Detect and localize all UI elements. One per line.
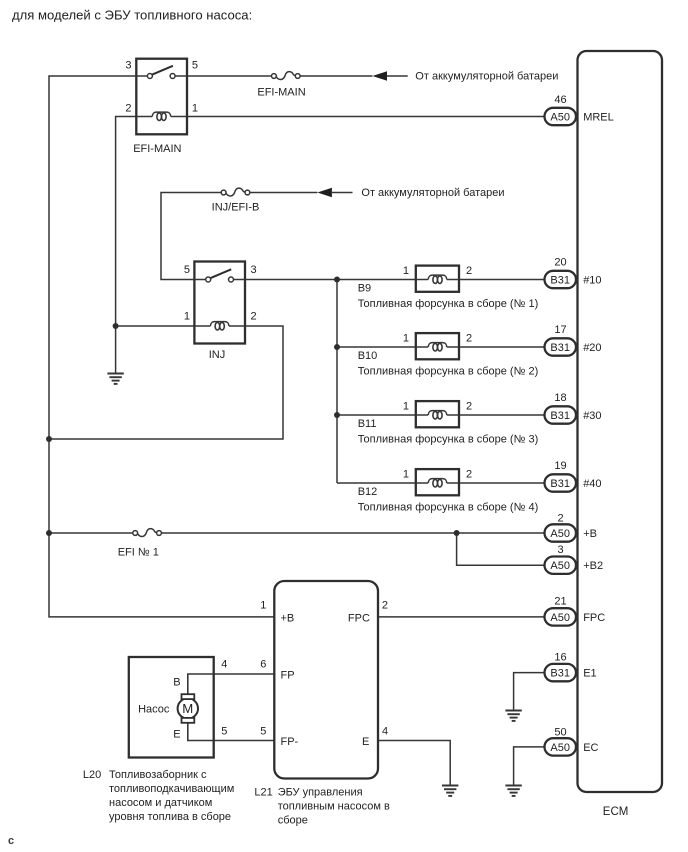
svg-text:5: 5	[184, 264, 190, 276]
svg-text:c: c	[8, 835, 14, 847]
wire: INJ relay pin 1 to ground bus	[116, 325, 195, 327]
svg-text:A50: A50	[550, 560, 570, 572]
svg-text:2: 2	[125, 102, 131, 114]
svg-text:Топливная форсунка в сборе (№: Топливная форсунка в сборе (№ 1)	[358, 298, 539, 310]
ECM pin #20: connector B31 terminal 17	[545, 324, 602, 356]
svg-text:FPC: FPC	[348, 612, 370, 624]
svg-text:B31: B31	[550, 274, 570, 286]
wire: EFI-MAIN relay pin 1 to ECM pin MREL	[187, 116, 545, 118]
ECM pin +B: connector A50 terminal 2	[545, 512, 597, 541]
relay INJ	[194, 262, 245, 344]
wire: left bus through fuse EFI No.1 to ECM pin +B	[49, 532, 132, 534]
ECM pin EC: connector A50 terminal 50	[545, 726, 599, 755]
wire: injector B9 to ECM pin #10	[459, 279, 545, 281]
svg-text:EFI-MAIN: EFI-MAIN	[133, 143, 181, 155]
ground (ECM pin EC)	[505, 786, 521, 796]
svg-text:5: 5	[221, 726, 227, 738]
svg-text:FPC: FPC	[583, 612, 605, 624]
svg-text:уровня топлива в сборе: уровня топлива в сборе	[109, 811, 231, 823]
svg-text:E: E	[362, 736, 369, 748]
svg-text:17: 17	[554, 324, 566, 336]
svg-text:ECM: ECM	[603, 806, 629, 818]
junction: INJ coil return on left bus	[46, 436, 52, 442]
svg-text:2: 2	[466, 401, 472, 413]
ground (fuel pump ECU pin E)	[442, 786, 458, 796]
svg-text:A50: A50	[550, 742, 570, 754]
svg-text:Топливозаборник с: Топливозаборник с	[109, 769, 207, 781]
injector B12 (fuel injector assembly No 4)	[416, 469, 459, 495]
svg-text:18: 18	[554, 392, 566, 404]
ECM pin #30: connector B31 terminal 18	[545, 392, 602, 424]
wire: INJ relay pin 2 loop to left bus	[49, 326, 283, 439]
ECM pin #10: connector B31 terminal 20	[545, 257, 602, 289]
wire: fuel pump ECU pin FPC to ECM pin FPC	[378, 616, 545, 618]
ground (relay coils)	[107, 374, 123, 384]
svg-text:A50: A50	[550, 111, 570, 123]
svg-text:6: 6	[260, 658, 266, 670]
svg-text:3: 3	[557, 544, 563, 556]
svg-text:MREL: MREL	[583, 112, 614, 124]
wire: fuse INJ/EFI-B to battery arrow	[250, 192, 317, 194]
injector B9 (fuel injector assembly No 1)	[416, 266, 459, 292]
wire: arrow stub to battery label 2	[332, 192, 353, 194]
wire: EFI-MAIN relay pin 2 to ground	[116, 117, 137, 374]
svg-text:L21: L21	[254, 787, 272, 799]
junction: +B/+B2 node	[454, 530, 460, 536]
wire: fuse INJ/EFI-B to INJ relay pin 5	[161, 193, 221, 280]
pump motor M1	[178, 674, 198, 741]
fuel pump ECU L21 box	[274, 581, 378, 779]
svg-text:топливоподкачивающим: топливоподкачивающим	[109, 783, 234, 795]
svg-text:4: 4	[382, 726, 388, 738]
wire: injector B12 to ECM pin #40	[459, 482, 545, 484]
svg-text:#20: #20	[583, 342, 601, 354]
svg-text:B12: B12	[358, 486, 378, 498]
svg-text:1: 1	[403, 333, 409, 345]
svg-text:FP-: FP-	[281, 736, 299, 748]
svg-text:+B2: +B2	[583, 560, 603, 572]
svg-text:B31: B31	[550, 342, 570, 354]
svg-text:EFI-MAIN: EFI-MAIN	[257, 86, 305, 98]
svg-text:3: 3	[251, 264, 257, 276]
svg-text:3: 3	[125, 60, 131, 72]
fuse EFI No.1	[133, 529, 162, 537]
injector B10 (fuel injector assembly No 2)	[416, 333, 459, 359]
wire: injector B10 to ECM pin #20	[459, 346, 545, 348]
relay EFI-MAIN	[136, 59, 187, 135]
ECM pin #40: connector B31 terminal 19	[545, 460, 602, 492]
junction: injector feed row 2	[334, 344, 340, 350]
svg-text:насосом и датчиком: насосом и датчиком	[109, 797, 212, 809]
arrow: from battery (middle)	[317, 188, 332, 197]
svg-text:16: 16	[554, 652, 566, 664]
fuse EFI-MAIN	[272, 72, 301, 80]
svg-text:B11: B11	[358, 418, 377, 430]
svg-text:для моделей с ЭБУ топливного н: для моделей с ЭБУ топливного насоса:	[12, 8, 252, 23]
svg-text:1: 1	[403, 469, 409, 481]
svg-text:A50: A50	[550, 612, 570, 624]
svg-text:50: 50	[554, 726, 566, 738]
svg-text:E: E	[173, 729, 180, 741]
arrow: from battery (top)	[373, 71, 388, 80]
svg-text:топливным насосом в: топливным насосом в	[278, 801, 390, 813]
svg-text:2: 2	[251, 311, 257, 323]
wire: ECM pin EC to ground	[514, 747, 545, 786]
ECM pin MREL: connector A50 terminal 46	[545, 94, 614, 125]
wire: fuse EFI-MAIN to battery arrow	[301, 75, 373, 77]
svg-text:B31: B31	[550, 410, 570, 422]
svg-text:#10: #10	[583, 275, 601, 287]
ECM box	[578, 51, 663, 792]
svg-text:4: 4	[221, 658, 227, 670]
svg-text:21: 21	[554, 596, 566, 608]
wire: injector B11 to ECM pin #30	[459, 414, 545, 416]
wire: EFI-MAIN relay pin 5 to fuse EFI-MAIN	[187, 75, 271, 77]
svg-text:ЭБУ управления: ЭБУ управления	[278, 787, 363, 799]
svg-text:От аккумуляторной батареи: От аккумуляторной батареи	[415, 71, 558, 83]
wire: fuel pump ECU pin E to ground	[378, 741, 450, 786]
junction: injector feed row 3	[334, 412, 340, 418]
wire: arrow stub to battery label	[387, 75, 408, 77]
ECM pin +B2: connector A50 terminal 3	[545, 544, 604, 574]
svg-text:1: 1	[403, 265, 409, 277]
fuse INJ/EFI-B	[221, 188, 250, 196]
svg-text:5: 5	[260, 726, 266, 738]
svg-text:L20: L20	[83, 769, 101, 781]
ECM pin FPC: connector A50 terminal 21	[545, 596, 606, 626]
svg-text:EFI № 1: EFI № 1	[118, 547, 159, 559]
junction: EFI No.1 tap on left bus	[46, 530, 52, 536]
svg-text:B31: B31	[550, 478, 570, 490]
svg-text:Топливная форсунка в сборе (№: Топливная форсунка в сборе (№ 4)	[358, 501, 539, 513]
svg-text:A50: A50	[550, 528, 570, 540]
svg-text:19: 19	[554, 460, 566, 472]
svg-text:B10: B10	[358, 350, 378, 362]
wire: pump motor E to fuel pump ECU pin FP-	[188, 721, 274, 741]
svg-text:Насос: Насос	[138, 703, 170, 715]
svg-text:INJ/EFI-B: INJ/EFI-B	[212, 201, 260, 213]
svg-text:E1: E1	[583, 668, 596, 680]
wire: injector feed vertical bus	[336, 280, 338, 484]
wire: feed branch to injector B10	[337, 346, 416, 348]
svg-text:B: B	[173, 676, 180, 688]
wire: ECM pin E1 to ground	[514, 673, 545, 711]
svg-text:+B: +B	[281, 612, 295, 624]
svg-text:2: 2	[466, 265, 472, 277]
svg-text:Топливная форсунка в сборе (№: Топливная форсунка в сборе (№ 3)	[358, 433, 539, 445]
wire: feed branch to injector B12	[337, 482, 416, 484]
svg-text:От аккумуляторной батареи: От аккумуляторной батареи	[361, 187, 504, 199]
svg-text:2: 2	[382, 599, 388, 611]
svg-text:20: 20	[554, 257, 566, 269]
svg-text:2: 2	[466, 469, 472, 481]
svg-text:FP: FP	[281, 669, 295, 681]
svg-text:1: 1	[192, 102, 198, 114]
wire: INJ relay pin 3 to injector feed node	[245, 279, 416, 281]
svg-text:2: 2	[557, 512, 563, 524]
svg-text:B9: B9	[358, 282, 371, 294]
svg-text:#40: #40	[583, 478, 601, 490]
svg-text:2: 2	[466, 333, 472, 345]
wire: feed branch to injector B11	[337, 414, 416, 416]
junction: relay coils ground node	[113, 323, 119, 329]
svg-text:1: 1	[184, 311, 190, 323]
fuel pump assembly L20 box	[129, 657, 214, 758]
ground (ECM pin E1)	[505, 711, 521, 721]
wire: left bus from EFI-MAIN relay pin 3 down to fuel pump ECU pin +B	[49, 76, 274, 617]
ECM pin E1: connector B31 terminal 16	[545, 652, 597, 682]
svg-text:5: 5	[192, 60, 198, 72]
svg-text:EC: EC	[583, 742, 598, 754]
injector B11 (fuel injector assembly No 3)	[416, 401, 459, 427]
svg-text:1: 1	[403, 401, 409, 413]
svg-text:Топливная форсунка в сборе (№: Топливная форсунка в сборе (№ 2)	[358, 365, 539, 377]
svg-text:INJ: INJ	[209, 349, 226, 361]
svg-text:46: 46	[554, 94, 566, 106]
wire: pump motor B to fuel pump ECU pin FP	[188, 674, 274, 696]
wire: +B2 branch	[457, 533, 545, 565]
svg-text:+B: +B	[583, 528, 597, 540]
svg-text:B31: B31	[550, 668, 570, 680]
svg-text:1: 1	[260, 599, 266, 611]
svg-text:#30: #30	[583, 410, 601, 422]
svg-text:M: M	[182, 701, 193, 716]
svg-text:сборе: сборе	[278, 815, 308, 827]
junction: injector feed row 1	[334, 277, 340, 283]
